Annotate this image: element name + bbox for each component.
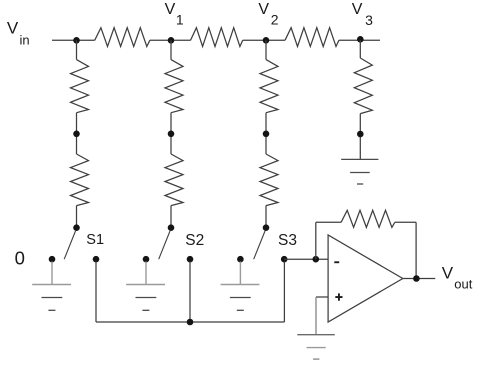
switch S2 right contact node	[187, 256, 194, 263]
op-amp U1 triangle	[328, 235, 403, 322]
wire column 3 upper lead	[265, 40, 267, 59]
node column 3 midpoint	[263, 131, 270, 138]
wire column 3 middle	[265, 113, 267, 154]
switch S2 left contact node	[143, 256, 150, 263]
wire column 3 to switch pivot	[265, 206, 267, 228]
switch S3 right contact node	[281, 256, 288, 263]
wire non-inverting input	[316, 296, 328, 298]
resistor R4 (column 1 upper)	[71, 60, 89, 113]
resistor R5 (column 1 lower)	[71, 154, 89, 206]
wire op-amp output	[403, 278, 436, 280]
wire column 1 to switch pivot	[76, 206, 78, 228]
node column 4 midpoint	[357, 131, 364, 138]
wire feedback top right	[395, 221, 416, 223]
wire S2 left contact to ground	[145, 262, 147, 285]
switch S1 left contact node	[49, 256, 56, 263]
switch S1 pivot node	[73, 224, 80, 231]
wire S3 left contact to ground	[239, 262, 241, 285]
node column 1 midpoint	[73, 131, 80, 138]
resistor R8 (column 3 upper)	[260, 60, 278, 113]
svg-text:S3: S3	[278, 232, 297, 249]
wire column 4 lower lead	[359, 114, 361, 160]
switch S1 arm	[64, 231, 75, 259]
wire column 2 to switch pivot	[170, 206, 172, 228]
svg-text:Vin: Vin	[7, 19, 30, 48]
ground under S1 left contact	[32, 285, 71, 311]
wire column 2 upper lead	[170, 40, 172, 59]
wire column 2 middle	[170, 113, 172, 154]
switch S3 arm	[254, 231, 265, 259]
ground under S2 left contact	[126, 285, 165, 311]
wire S2 right contact down to bus	[189, 262, 191, 323]
svg-text:S2: S2	[185, 232, 204, 249]
wire bottom bus	[96, 321, 284, 323]
ground under S3 left contact	[221, 285, 260, 311]
resistor R3 (V2 to V3)	[285, 28, 339, 47]
op-amp U1 minus sign	[334, 261, 339, 263]
svg-text:V3: V3	[352, 1, 373, 28]
ground below op-amp non-inverting input	[297, 335, 335, 359]
wire feedback right vertical	[415, 222, 417, 278]
resistor R2 (V1 to V2)	[191, 28, 243, 47]
switch S2 arm	[159, 231, 170, 259]
switch S1 right contact node	[93, 256, 100, 263]
node V2	[263, 37, 270, 44]
switch S2 pivot node	[168, 224, 175, 231]
wire top rail Vin to V3	[52, 39, 380, 41]
wire column 4 upper lead	[359, 40, 361, 58]
wire S1 left contact to ground	[51, 262, 53, 285]
wire feedback left vertical	[315, 222, 317, 259]
node output junction	[413, 275, 420, 282]
svg-text:V2: V2	[258, 1, 278, 28]
wire S3 right contact down to bus	[283, 262, 285, 323]
wire column 1 middle	[76, 113, 78, 154]
node column 2 midpoint	[168, 131, 175, 138]
op-amp U1 plus sign	[335, 293, 342, 300]
switch S3 pivot node	[263, 224, 270, 231]
resistor R7 (column 2 lower)	[165, 154, 183, 206]
node V3	[357, 36, 364, 43]
wire S1 right contact down to bus	[95, 262, 97, 323]
resistor R10 (column 4)	[354, 58, 372, 114]
wire non-inverting input to ground	[315, 297, 317, 335]
switch S3 left contact node	[237, 256, 244, 263]
svg-text:Vout: Vout	[442, 264, 473, 292]
svg-text:0: 0	[15, 248, 25, 269]
node inverting input junction	[313, 256, 320, 263]
node Vin junction	[73, 37, 80, 44]
wire S3 right contact to inverting input	[284, 258, 328, 260]
svg-text:V1: V1	[165, 1, 184, 27]
svg-text:S1: S1	[86, 232, 104, 248]
wire column 1 upper lead	[76, 40, 78, 59]
resistor R1 (Vin to V1)	[95, 28, 150, 47]
resistor Rf feedback	[341, 210, 395, 227]
node V1	[168, 37, 175, 44]
node bus junction below S2	[187, 319, 194, 326]
resistor R9 (column 3 lower)	[260, 154, 278, 206]
wire feedback top left	[316, 221, 341, 223]
resistor R6 (column 2 upper)	[165, 60, 183, 113]
ground below V3 branch	[341, 159, 378, 184]
